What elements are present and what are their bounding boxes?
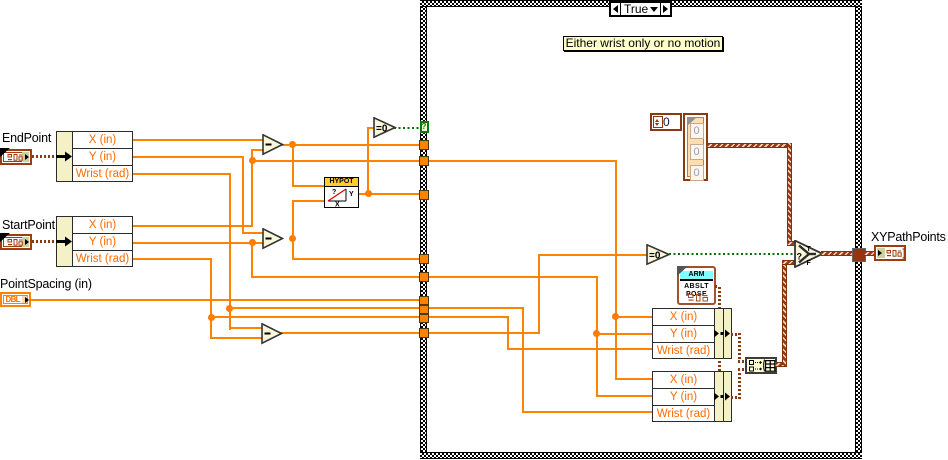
array constant: element shell [683, 113, 708, 181]
wire subtract2 output vertical rise to HYPOT [292, 200, 294, 240]
wire into bundle1 Wrist input [507, 348, 653, 350]
unbundle by name StartPoint: name rows X (in) / Y (in) / Wrist (rad) [72, 216, 133, 267]
case structure: frame bottom border [420, 452, 862, 459]
wire HYPOT output vertical rise to equal-zero 1 [367, 127, 369, 195]
junction bundle Y feed [593, 330, 600, 337]
bundle by name 2: right column [723, 371, 732, 422]
wire subtract3 output to tunnel T6 [281, 332, 419, 334]
Select node [794, 240, 824, 268]
control terminal StartPoint (cluster) [0, 234, 32, 250]
junction EndPoint Wrist branch [226, 305, 233, 312]
wire tunnel T4 inside horizontal [429, 307, 524, 309]
array wire constant to Select t input: vertical [787, 143, 792, 243]
label XYPathPoints [871, 230, 946, 244]
junction StartPoint Wrist branch [208, 314, 215, 321]
wire into HYPOT bottom input [292, 200, 326, 202]
svg-text:?: ? [797, 251, 803, 261]
wire EndPoint Y vertical drop at x=242 [242, 156, 244, 234]
unbundle by name EndPoint: selector column [56, 131, 73, 182]
array wire into Select f input [782, 260, 797, 265]
subtract node 3 [261, 323, 283, 345]
wire StartPoint Y vertical drop at x=252 [251, 242, 253, 279]
case structure: frame left border [420, 0, 427, 459]
wire tunnel T2 vertical drop at x=596 [596, 276, 598, 396]
wire tunnel T6 to equal-zero 2: vertical rise at x=539 [538, 254, 540, 333]
wire tunnel T4 vertical drop at x=523 [522, 307, 524, 412]
svg-text:=0: =0 [376, 124, 388, 135]
cluster wire bundle1 output vertical [738, 333, 741, 363]
wire EndPoint Y horizontal run [133, 156, 243, 158]
wire into bundle2 Wrist input [522, 411, 653, 413]
wire tunnel T6 to equal-zero 2: horizontal [429, 332, 540, 334]
tunnel T5 (StartPoint Wrist) [419, 314, 429, 323]
wire subtract2 output to tunnel T1 [292, 258, 420, 260]
cluster wire ARM vertical drop into bundle1 [718, 285, 721, 309]
wire StartPoint Wrist to tunnel T5 [210, 316, 419, 318]
gray corner wedge on ARM constant [677, 266, 688, 276]
array wire Select output to tunnel [821, 251, 853, 256]
tunnel T6 (subtract3 result) [419, 328, 429, 338]
svg-text:T: T [807, 246, 812, 253]
boolean wire equal-zero 2 to Select s input [669, 253, 795, 255]
cluster wire EndPoint terminal to unbundle [32, 155, 57, 158]
tunnel T1 (subtract2 result) [419, 254, 429, 264]
output tunnel on right border [852, 248, 866, 262]
wire into bundle2 X input [615, 378, 654, 380]
bundle by name 1: arrow glyph [714, 329, 732, 338]
equal-to-zero node 1 [373, 117, 397, 139]
subtract node 1 [262, 134, 284, 156]
black corner wedge on EndPoint terminal [0, 148, 10, 157]
wire PointSpacing to tunnel T3 [31, 299, 419, 301]
label PointSpacing (in) [0, 277, 92, 291]
wire StartPoint Y into subtract2 bottom input [133, 242, 263, 244]
wire EndPoint Wrist vertical drop at x=229 [229, 173, 231, 330]
wire tunnel T5 inside horizontal [429, 316, 509, 318]
wire subtract1 output to tunnel Ta [281, 144, 419, 146]
wire tunnel T5 vertical drop at x=508 [507, 316, 509, 350]
unbundle by name EndPoint: name rows X (in) / Y (in) / Wrist (rad) [72, 131, 133, 182]
wire into bundle1 Y input [596, 333, 654, 335]
svg-text:?: ? [332, 189, 336, 196]
bundle by name 2: arrow glyph [714, 392, 732, 401]
HYPOT node [324, 177, 359, 208]
case structure: frame top border [420, 0, 862, 7]
build array node [745, 357, 777, 374]
tunnel T4 (EndPoint Wrist) [419, 305, 429, 314]
wire StartPoint X to tunnel Tb [251, 160, 419, 162]
wire into bundle2 Y input [596, 395, 654, 397]
indicator terminal XYPathPoints (array of cluster) [874, 245, 906, 261]
bundle by name 2: name rows X (in) / Y (in) / Wrist (rad) [652, 371, 715, 422]
wire EndPoint Y into subtract2 top input [242, 232, 264, 234]
array wire constant to Select t input: horizontal [707, 143, 792, 148]
wire StartPoint X into subtract1 bottom input [251, 149, 263, 151]
junction subtract1 output [289, 141, 296, 148]
svg-text:Y: Y [349, 191, 354, 198]
cluster wire bundle2 output [731, 396, 740, 399]
green tunnel boolean output [420, 121, 429, 133]
wire EndPoint Wrist into subtract3 top input [229, 327, 263, 329]
cluster wire into build array input 2 [738, 368, 747, 371]
wire StartPoint Wrist into subtract3 bottom input [210, 337, 262, 339]
wire subtract1 output vertical drop to HYPOT [292, 144, 294, 187]
wire EndPoint Wrist horizontal run [133, 173, 230, 175]
junction bundle X feed [612, 313, 619, 320]
junction StartPoint Y branch [249, 239, 256, 246]
wire into equal-zero 2 input [538, 254, 648, 256]
unbundle by name StartPoint: input arrow [56, 236, 73, 247]
label StartPoint [2, 218, 55, 232]
wire StartPoint X horizontal run [133, 225, 253, 227]
junction subtract2 output [289, 235, 296, 242]
array wire into Select t input [787, 241, 796, 246]
tunnel Tb (StartPoint X) [419, 156, 429, 166]
bundle by name 2: middle column [714, 371, 724, 422]
wire StartPoint Y to tunnel T2 [251, 276, 419, 278]
free label comment "Either wrist only or no motion" [563, 36, 723, 51]
tunnel T3 (PointSpacing) [419, 296, 429, 305]
black corner wedge on StartPoint terminal [0, 233, 10, 242]
wire EndPoint Wrist to tunnel T4 [229, 307, 420, 309]
unbundle by name EndPoint: input arrow [56, 151, 73, 162]
label EndPoint [2, 131, 51, 145]
case selector label "True" [609, 1, 672, 17]
subtract node 2 [262, 228, 284, 250]
wire tunnel T2 inside horizontal [429, 276, 597, 278]
svg-text:X: X [335, 202, 340, 208]
array wire build array to Select f input: vertical [782, 260, 787, 365]
array constant: index display [650, 113, 682, 131]
equal-to-zero node 2 [646, 244, 671, 266]
bundle by name 1: name rows X (in) / Y (in) / Wrist (rad) [652, 308, 715, 359]
svg-text:F: F [807, 260, 812, 267]
array wire build array to Select f input: horizontal [775, 362, 787, 367]
wire into HYPOT top input [292, 185, 326, 187]
wire StartPoint Wrist vertical drop at x=211 [210, 258, 212, 339]
cluster wire into build array input 1 [738, 360, 747, 363]
cluster wire StartPoint terminal to unbundle [32, 240, 57, 243]
tunnel Ta (subtract1 result) [419, 140, 429, 150]
wire tunnel Tb vertical drop at x=615 [615, 160, 617, 380]
tunnel Tc (HYPOT result) [419, 190, 429, 200]
svg-text:=0: =0 [649, 251, 661, 262]
wire tunnel Tb inside horizontal [429, 160, 616, 162]
wire subtract2 output vertical drop [292, 238, 294, 260]
cluster wire bundle1 output [731, 333, 740, 336]
bundle by name 1: right column [723, 308, 732, 359]
boolean wire equal-zero 1 to green tunnel [394, 127, 420, 129]
junction StartPoint X branch [249, 157, 256, 164]
wire StartPoint Wrist horizontal run [133, 258, 212, 260]
cluster wire ARM constant output [715, 285, 721, 288]
cluster constant ARM ABSLT POSE [677, 266, 716, 305]
cluster wire bundle2 output vertical [738, 368, 741, 399]
wire EndPoint X to subtract1 top input [133, 139, 263, 141]
bundle by name 1: middle column [714, 308, 724, 359]
tunnel T2 (StartPoint Y) [419, 272, 429, 282]
control terminal PointSpacing (DBL) [0, 292, 31, 307]
wire into bundle1 X input [615, 316, 654, 318]
wire StartPoint X vertical rise at x=252 [251, 149, 253, 227]
case structure: frame right border [855, 0, 862, 459]
junction HYPOT output [365, 190, 372, 197]
control terminal EndPoint (cluster) [0, 149, 32, 165]
array wire tunnel to XYPathPoints terminal [864, 251, 875, 256]
unbundle by name StartPoint: selector column [56, 216, 73, 267]
wire into equal-zero 1 input [367, 127, 375, 129]
cluster wire between bundle1 and bundle2 [718, 359, 721, 371]
wire HYPOT output to tunnel Tc [358, 193, 419, 195]
